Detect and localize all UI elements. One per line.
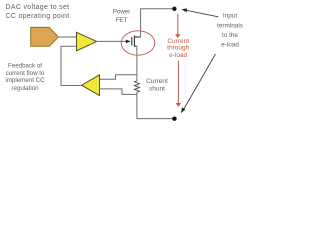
current shunt resistor (zigzag) (134, 81, 139, 92)
label: Input terminals to the e-load (217, 13, 243, 49)
wire: DAC to op-amp + input (58, 36, 76, 38)
svg-text:terminals: terminals (217, 22, 243, 29)
svg-text:FET: FET (116, 17, 128, 24)
wire: shunt top tap to U2 upper input (100, 75, 137, 79)
wire: FET drain up (141, 9, 173, 37)
svg-text:through: through (167, 45, 189, 52)
label (red): Current through e-load (167, 38, 189, 59)
node: top input terminal (dot) (172, 7, 176, 11)
label: Power FET (113, 8, 131, 24)
red arrow: current into e-load (upper) (177, 14, 179, 35)
svg-text:current flow to: current flow to (6, 70, 45, 77)
node: bottom input terminal (dot) (172, 117, 176, 121)
svg-text:Feedback of: Feedback of (8, 63, 42, 70)
svg-text:CC operating point: CC operating point (6, 13, 70, 20)
svg-text:to the: to the (222, 32, 238, 39)
wire: op-amp output to FET gate (97, 40, 127, 42)
svg-text:regulation: regulation (11, 85, 39, 92)
red arrow: current through e-load (lower) (177, 61, 179, 104)
label: Feedback of current flow to implement CC regulation (5, 63, 45, 92)
wire: shunt bottom tap to U2 lower input (100, 89, 137, 95)
svg-text:shunt: shunt (149, 86, 165, 93)
svg-text:implement CC: implement CC (5, 77, 45, 84)
DAC symbol (pentagon) (31, 27, 59, 46)
wire: shunt bottom down (136, 92, 138, 118)
svg-text:DAC voltage to set: DAC voltage to set (6, 4, 70, 11)
svg-text:Power: Power (113, 8, 131, 15)
op-amp U2 (feedback buffer, points left) (82, 75, 100, 96)
wire: bottom run to terminal (137, 118, 172, 120)
op-amp U1 (CC control amp) (77, 32, 97, 51)
black arrow: label to bottom terminal (184, 54, 216, 109)
red ellipse highlight around FET (121, 31, 155, 55)
wire: FET source down to shunt (136, 46, 138, 81)
wire: U2 output feedback to U1 inverting input (61, 46, 82, 85)
svg-text:Input: Input (223, 13, 237, 20)
label: Current shunt (146, 78, 168, 93)
svg-text:e-load: e-load (169, 52, 187, 59)
label: DAC voltage to set CC operating point (6, 4, 70, 20)
svg-text:e-load: e-load (221, 41, 239, 48)
arrowhead into FET gate (126, 40, 131, 44)
svg-text:Current: Current (146, 78, 168, 85)
black arrow: label to top terminal (187, 10, 219, 16)
power FET Q1 (132, 35, 141, 46)
